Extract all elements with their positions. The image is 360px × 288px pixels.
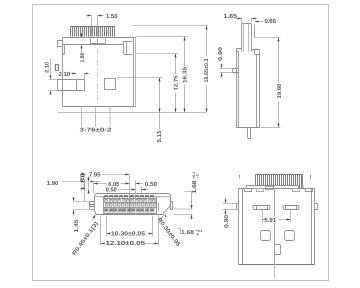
dim 1.65 [235,18,258,23]
svg-text:19.80: 19.80 [277,84,283,99]
dim 5.91 [263,210,291,223]
svg-text:18.65±0.3: 18.65±0.3 [204,59,210,83]
dim 1.50 [86,16,105,37]
top view: left U finger [63,45,65,55]
svg-text:3-76±0-2: 3-76±0-2 [80,127,112,133]
top view: EMI finger comb [71,27,115,37]
bottom view: body outline [239,189,315,265]
dim 12.10 [101,216,159,246]
leader + text R0.30 [160,215,165,222]
dim 0.66 leader [255,21,264,23]
side view: body [237,50,260,128]
svg-text:2.10: 2.10 [59,71,71,78]
side view: right shoulder [252,50,260,55]
dim 12.75 [137,54,178,113]
bottom view: right edge bump [315,204,318,210]
top view: right latch slot [124,42,133,55]
svg-text:-0: -0 [196,232,199,236]
top view: inner front edge line [63,44,124,46]
svg-text:12.75: 12.75 [173,76,179,91]
bottom view: left square hole [261,231,271,241]
front view: inner right wall [158,203,160,211]
top view: left dark nub [56,65,59,71]
svg-text:0.90: 0.90 [218,47,224,61]
dim 18.65±0.3 [133,26,208,113]
svg-text:1.45: 1.45 [74,220,80,233]
dim 1.80 [81,34,83,53]
dim 1.30 [88,177,90,193]
front view: pin contacts row 4 [105,209,155,213]
bottom view: left slot [253,206,270,210]
svg-text:0.50: 0.50 [145,181,158,188]
bottom view: left edge bump [237,204,239,210]
side view: tongue [242,24,252,52]
top view: left edge [62,38,64,107]
dim 19.80 [255,38,281,128]
svg-text:1.80: 1.80 [80,53,86,63]
front view: pin contacts row 1 [105,196,154,199]
dim 7.95 [81,175,130,195]
bottom view: side wing tips [240,175,311,179]
side view: bottom tail pin [248,128,251,139]
top view: center notch 2 [98,38,106,44]
top view: centerline [97,49,99,105]
svg-text:0.50: 0.50 [106,187,118,194]
svg-text:12.10±0.05: 12.10±0.05 [106,240,146,247]
bottom view: shoulder [247,186,299,189]
bottom view: top center notch [266,187,274,190]
svg-text:1.68: 1.68 [192,181,198,194]
dim 16.35 [137,37,189,113]
svg-text:5.91: 5.91 [264,217,276,224]
svg-text:0.90: 0.90 [224,215,230,228]
svg-text:1.65: 1.65 [224,13,238,20]
front view: inner top line [96,196,170,198]
svg-text:1.90: 1.90 [47,180,59,187]
svg-text:1.68: 1.68 [181,230,194,236]
dim 10.30 [107,216,153,237]
border frame [33,5,329,281]
leader + text R0.45 [93,216,96,220]
top view: bottom edge [63,106,136,108]
front view: outer shell with chamfers [95,194,171,215]
dim 1.45 [74,198,95,217]
front view: pin contacts row 3 [106,204,157,207]
top view: center mid rect [105,79,116,90]
svg-text:7.95: 7.95 [89,171,101,178]
top view: left top tab [58,41,63,47]
svg-text:R0.30±0.05: R0.30±0.05 [156,217,181,248]
top view: right edge double [133,38,135,107]
dim 0.50 upper [136,181,144,195]
top view: lead extension lines for 3-76 dim [82,107,111,127]
bottom view: top tabs [245,189,252,192]
side view: left solder tab [233,69,239,73]
dim 6.05 [94,183,130,185]
svg-text:16.35: 16.35 [182,67,188,83]
dim 5.15 [117,78,163,130]
front view: right side tab [171,202,173,210]
front view: left side tab [90,202,95,210]
front view: center divider [129,195,131,215]
side view: left shoulder [237,49,242,52]
svg-text:2.10: 2.10 [45,62,51,73]
bottom view: right square hole [285,231,295,241]
dim 1.68 lower text [178,229,181,235]
bottom view: finger comb [256,175,303,186]
svg-text:-0: -0 [195,174,199,177]
top view: body top edge [63,37,136,39]
svg-text:5.15: 5.15 [157,131,163,143]
top view: terminal tips baseline [58,112,207,114]
bottom view: center seam line [274,190,276,265]
dim 2.10 vertical [49,59,58,95]
bottom view: comb right-end teeth reaching body edge [300,186,304,189]
svg-text:0.66: 0.66 [265,18,277,25]
svg-text:10.30±0.05: 10.30±0.05 [111,230,146,237]
dim 0.90 side view [220,64,233,79]
bottom view: right slot [283,206,299,210]
bottom view: center bottom rect [275,245,281,255]
top view: left mid solder tab rect [58,80,85,91]
front view: pin field box [104,197,157,214]
svg-text:1.50: 1.50 [106,13,118,20]
top view: center notch 1 [91,38,98,44]
front view: pin contacts row 2 [105,200,156,203]
dim 0.90 bottom view [223,198,239,216]
svg-text:1.30: 1.30 [81,172,87,191]
